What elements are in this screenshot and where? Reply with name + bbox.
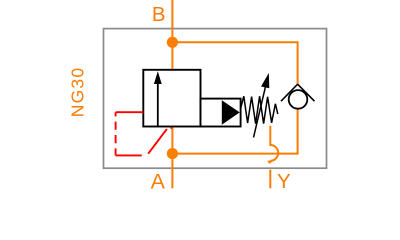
pilot line diagonal dash xyxy=(148,129,167,154)
adjustable spring xyxy=(241,96,278,123)
main valve body box xyxy=(143,70,200,127)
line-jump end tick xyxy=(268,161,272,163)
adjustment arrow xyxy=(254,85,266,137)
pilot line bottom segment xyxy=(116,154,142,156)
svg-text:NG30: NG30 xyxy=(68,67,88,118)
pilot line (red dashed) top segment xyxy=(116,111,144,113)
svg-text:B: B xyxy=(152,3,166,26)
drain line Y from spring with line-jump xyxy=(270,126,278,161)
junction dot at B xyxy=(167,37,178,48)
port A line xyxy=(171,127,173,189)
svg-text:A: A xyxy=(151,170,166,194)
wire check valve to A (bottom run) xyxy=(172,109,297,154)
junction dot at A xyxy=(167,148,178,159)
pilot line vertical dashed xyxy=(115,112,117,155)
pilot triangle xyxy=(222,100,240,125)
svg-text:Y: Y xyxy=(277,170,291,193)
check valve ball xyxy=(289,90,308,109)
wire B to check valve (top run) xyxy=(172,42,297,84)
envelope frame (valve boundary) xyxy=(104,29,327,169)
pilot actuator box xyxy=(201,99,241,127)
flow arrow in valve box xyxy=(157,83,159,127)
pilot line diagonal end tick xyxy=(171,127,172,128)
port B line xyxy=(171,0,173,70)
check valve seat xyxy=(281,84,298,101)
